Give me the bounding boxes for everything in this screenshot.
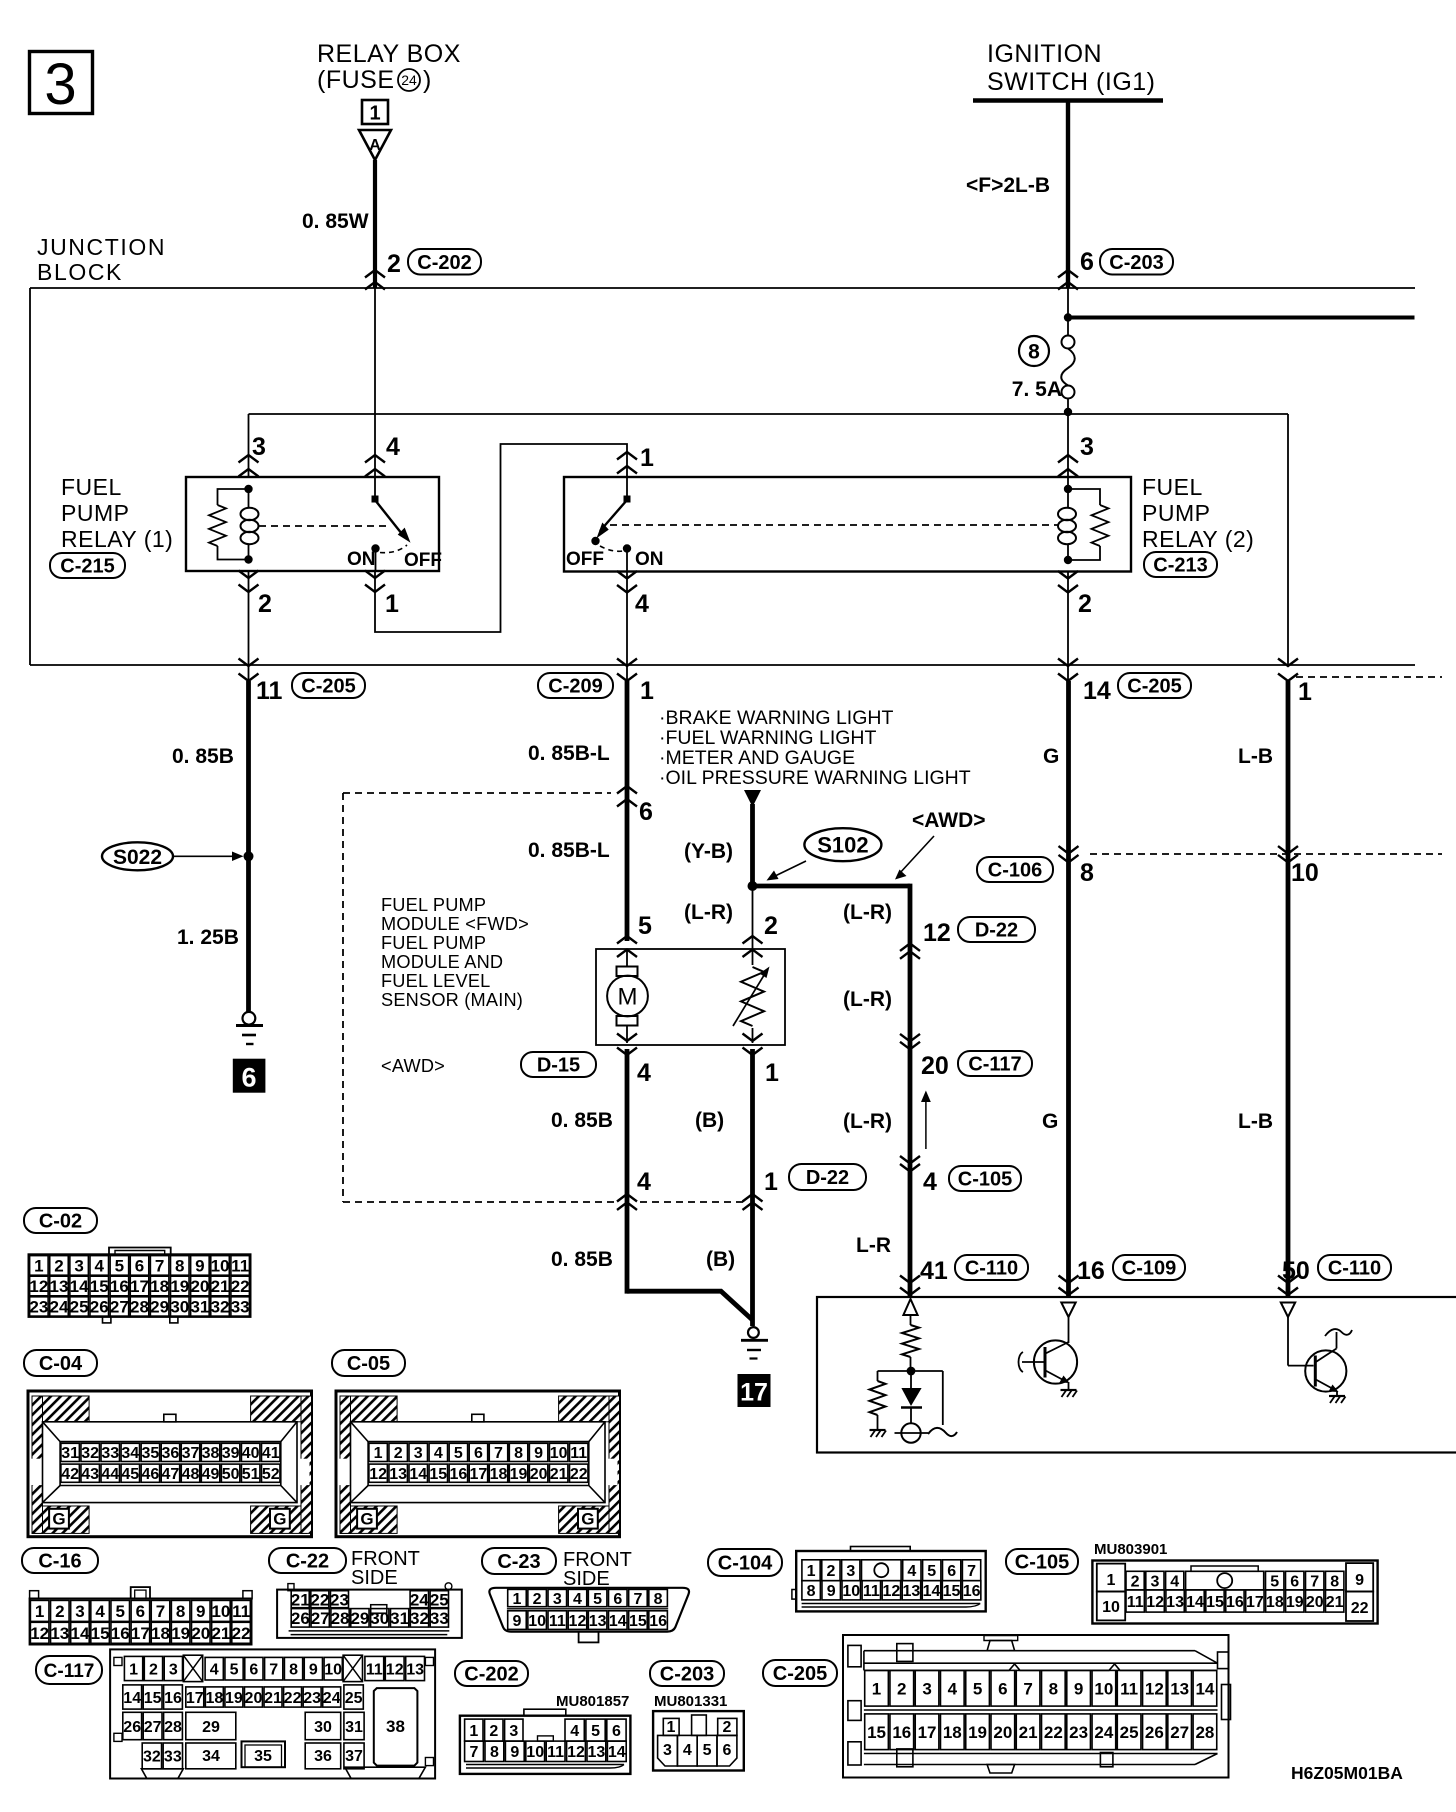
svg-text:13: 13 (1166, 1594, 1184, 1611)
connector C-104 bottom lip (802, 1603, 981, 1605)
svg-text:14: 14 (123, 1690, 141, 1707)
svg-text:13: 13 (903, 1583, 921, 1600)
fuse 8 circle label (1019, 336, 1049, 366)
connector C-16 label (22, 1548, 98, 1573)
svg-text:7: 7 (470, 1744, 479, 1761)
svg-text:17: 17 (131, 1624, 150, 1643)
svg-text:37: 37 (182, 1445, 200, 1462)
svg-text:3: 3 (414, 1445, 423, 1462)
arrows C-106 pin 8 (1059, 846, 1079, 854)
svg-text:9: 9 (195, 1257, 204, 1276)
svg-text:4: 4 (635, 590, 649, 618)
svg-text:26: 26 (1145, 1723, 1164, 1742)
svg-text:C-16: C-16 (38, 1551, 81, 1573)
connector C-04 label (24, 1350, 97, 1376)
connector C-104 pins (802, 1560, 820, 1581)
svg-text:11: 11 (547, 1744, 564, 1761)
svg-text:1: 1 (385, 590, 399, 618)
svg-text:2: 2 (54, 1257, 63, 1276)
svg-text:C-110: C-110 (1328, 1258, 1381, 1280)
svg-text:26: 26 (90, 1298, 109, 1317)
connector C-205 body (843, 1635, 1229, 1778)
svg-text:23: 23 (1069, 1723, 1088, 1742)
svg-text:49: 49 (202, 1466, 220, 1483)
ECM box (817, 1297, 1456, 1453)
svg-text:34: 34 (202, 1748, 220, 1765)
svg-text:7: 7 (155, 1257, 164, 1276)
svg-text:0. 85B: 0. 85B (172, 745, 234, 768)
svg-text:13: 13 (50, 1624, 69, 1643)
svg-text:0. 85B: 0. 85B (551, 1109, 613, 1132)
svg-text:19: 19 (968, 1723, 987, 1742)
svg-text:17: 17 (740, 1379, 768, 1407)
svg-text:22: 22 (1044, 1723, 1063, 1742)
connector C-205 right latch (1218, 1652, 1229, 1669)
svg-text:20: 20 (190, 1277, 209, 1296)
svg-text:15: 15 (629, 1613, 647, 1630)
connector C-104 label (708, 1549, 782, 1576)
svg-text:11: 11 (1127, 1594, 1144, 1611)
svg-text:2: 2 (723, 1719, 732, 1736)
connector C-202 pins (465, 1719, 483, 1741)
svg-text:5: 5 (593, 1591, 602, 1608)
connector C-04 inner face (43, 1422, 298, 1503)
transistor Q1 (1068, 1317, 1070, 1343)
svg-text:20: 20 (191, 1624, 210, 1643)
connector C-04 top tab (164, 1414, 176, 1422)
svg-text:14: 14 (1083, 677, 1111, 705)
svg-text:L-R: L-R (856, 1234, 891, 1257)
svg-text:10: 10 (550, 1445, 568, 1462)
svg-text:39: 39 (222, 1445, 240, 1462)
svg-text:11: 11 (231, 1257, 249, 1276)
svg-text:(L-R): (L-R) (684, 901, 733, 924)
ignition feed bus wire (1068, 316, 1415, 320)
svg-text:5: 5 (454, 1445, 463, 1462)
svg-text:14: 14 (1186, 1594, 1204, 1611)
svg-text:29: 29 (150, 1298, 169, 1317)
svg-text:2: 2 (387, 250, 401, 278)
relay1 ON contact (371, 544, 379, 552)
svg-text:FUEL LEVEL: FUEL LEVEL (381, 971, 491, 991)
splice S022 label (102, 842, 173, 870)
svg-text:8: 8 (175, 1257, 184, 1276)
svg-text:MODULE AND: MODULE AND (381, 952, 503, 972)
arrow from AWD to branch (899, 836, 934, 874)
svg-text:19: 19 (510, 1466, 528, 1483)
svg-text:5: 5 (115, 1602, 124, 1621)
ignition switch bus bar (973, 98, 1163, 103)
connector C-117 pin 38 cavity (374, 1688, 418, 1766)
svg-text:3: 3 (1080, 433, 1094, 461)
svg-text:8: 8 (1080, 859, 1094, 887)
svg-text:24: 24 (50, 1298, 69, 1317)
svg-text:3: 3 (169, 1661, 178, 1678)
svg-text:(B): (B) (706, 1248, 735, 1271)
svg-text:9: 9 (1355, 1572, 1364, 1589)
svg-text:27: 27 (311, 1609, 330, 1628)
svg-text:(L-R): (L-R) (843, 988, 892, 1011)
connector arrows C-203 (1058, 270, 1078, 278)
svg-text:29: 29 (202, 1719, 220, 1736)
transistor Q2 (1287, 1317, 1289, 1366)
svg-text:51: 51 (242, 1466, 260, 1483)
wire C-202 to relay1 pin4 (374, 288, 376, 477)
svg-text:25: 25 (430, 1590, 449, 1609)
thin arrow up along AWD wire (925, 1095, 927, 1149)
ground Q2 (1329, 1395, 1345, 1397)
relay2 coil resistor (1068, 489, 1100, 505)
connector C-22 pins (291, 1591, 309, 1608)
svg-text:M: M (618, 984, 638, 1011)
relay1 coil (244, 485, 252, 493)
svg-text:7: 7 (1310, 1573, 1319, 1590)
connector C-203 body (653, 1711, 744, 1770)
svg-text:47: 47 (162, 1466, 180, 1483)
connector C-202 label (455, 1661, 528, 1686)
svg-text:MU801331: MU801331 (654, 1693, 727, 1710)
svg-text:C-109: C-109 (1122, 1258, 1176, 1280)
svg-text:1: 1 (34, 1257, 43, 1276)
svg-text:20: 20 (921, 1052, 949, 1080)
svg-text:·BRAKE WARNING LIGHT: ·BRAKE WARNING LIGHT (659, 707, 893, 729)
svg-text:15: 15 (429, 1466, 447, 1483)
svg-text:7: 7 (1023, 1679, 1032, 1698)
ground symbol left (243, 1012, 256, 1025)
arrows module pin 4 bottom (617, 1034, 637, 1042)
pump ground wire bend (627, 1291, 753, 1320)
svg-text:MODULE <FWD>: MODULE <FWD> (381, 914, 529, 934)
arrows relay2 pin 3 (1058, 455, 1078, 463)
wire Y-B (750, 804, 755, 886)
svg-text:BLOCK: BLOCK (37, 259, 123, 285)
connector C-02 label (24, 1208, 97, 1233)
svg-text:27: 27 (110, 1298, 129, 1317)
svg-text:12: 12 (569, 1613, 587, 1630)
arrows D-22 bottom pin 4 (617, 1194, 637, 1202)
svg-text:34: 34 (121, 1445, 139, 1462)
relay1 pin2 wire to junction bottom (248, 571, 250, 681)
svg-text:21: 21 (264, 1690, 282, 1707)
svg-text:4: 4 (637, 1059, 651, 1087)
connector C-117 row3 pins (123, 1712, 142, 1739)
svg-text:16: 16 (1226, 1594, 1244, 1611)
wire B sensor ground (750, 1049, 755, 1326)
svg-text:22: 22 (310, 1590, 329, 1609)
svg-text:16: 16 (963, 1583, 981, 1600)
svg-text:6: 6 (135, 1257, 144, 1276)
svg-text:13: 13 (406, 1661, 424, 1678)
svg-text:18: 18 (151, 1624, 170, 1643)
svg-text:28: 28 (164, 1719, 182, 1736)
arrows C-105 pin 4 (900, 1156, 920, 1164)
svg-text:40: 40 (242, 1445, 260, 1462)
svg-text:G: G (52, 1510, 65, 1529)
svg-text:21: 21 (1019, 1723, 1038, 1742)
connector C-117 row2 pins (123, 1685, 142, 1709)
svg-text:2: 2 (149, 1661, 158, 1678)
svg-text:1: 1 (640, 444, 654, 472)
svg-text:4: 4 (95, 1257, 105, 1276)
svg-text:32: 32 (81, 1445, 99, 1462)
svg-text:SENSOR (MAIN): SENSOR (MAIN) (381, 990, 523, 1010)
arrows junction exit L-B (1278, 659, 1298, 667)
svg-text:14: 14 (1195, 1679, 1214, 1698)
svg-text:19: 19 (170, 1277, 189, 1296)
ground reference 6 black box (233, 1059, 266, 1093)
svg-text:21: 21 (211, 1624, 230, 1643)
svg-text:C-213: C-213 (1153, 555, 1207, 577)
svg-text:PUMP: PUMP (1142, 500, 1210, 526)
svg-text:(L-R): (L-R) (843, 901, 892, 924)
connector C-16 pins (30, 1600, 49, 1621)
splice node S022 (244, 851, 254, 861)
svg-text:C-215: C-215 (60, 556, 114, 578)
connector C-105 big pins (1097, 1564, 1125, 1592)
svg-text:15: 15 (1206, 1594, 1224, 1611)
svg-text:L-B: L-B (1238, 1110, 1273, 1133)
svg-text:): ) (423, 66, 431, 94)
gauge right branch (942, 1371, 944, 1425)
svg-text:2: 2 (394, 1445, 403, 1462)
relay2 switch (626, 477, 628, 499)
connector C-203 pins (663, 1718, 679, 1735)
wire rail right leg to L-B output (1287, 414, 1289, 665)
connector C-22 label (269, 1548, 346, 1573)
svg-text:1: 1 (513, 1591, 522, 1608)
svg-text:38: 38 (202, 1445, 220, 1462)
relay2 coil-switch dashed link (610, 524, 1058, 526)
dashed AWD variant line at L-B output (1296, 676, 1442, 678)
svg-text:13: 13 (50, 1277, 69, 1296)
ground Q1 (1061, 1389, 1077, 1391)
svg-text:ON: ON (635, 549, 664, 570)
dashed outline fuel pump module (343, 792, 611, 794)
gauge diode (910, 1371, 912, 1388)
svg-text:C-05: C-05 (347, 1353, 390, 1375)
svg-text:6: 6 (1080, 248, 1094, 276)
svg-text:H6Z05M01BA: H6Z05M01BA (1291, 1763, 1403, 1783)
svg-text:25: 25 (345, 1690, 363, 1707)
svg-text:22: 22 (284, 1690, 302, 1707)
svg-text:11: 11 (863, 1583, 880, 1600)
svg-text:10: 10 (211, 1257, 230, 1276)
connector C-205 side tabs (848, 1645, 861, 1666)
svg-text:22: 22 (1351, 1600, 1369, 1617)
svg-text:0. 85B: 0. 85B (551, 1248, 613, 1271)
splice S102 label (804, 828, 881, 861)
svg-text:45: 45 (121, 1466, 139, 1483)
svg-text:A: A (369, 137, 381, 154)
wire L-B (1286, 681, 1291, 1297)
arrows junction exit 0.85B (239, 659, 259, 667)
rheostat arrow (733, 972, 766, 1026)
gauge circuit collector triangle (903, 1299, 917, 1315)
svg-text:2: 2 (897, 1679, 906, 1698)
svg-text:1: 1 (469, 1723, 478, 1740)
svg-text:11: 11 (570, 1445, 587, 1462)
connector arrows C-202 (365, 270, 385, 278)
svg-text:29: 29 (350, 1609, 369, 1628)
svg-text:13: 13 (589, 1613, 607, 1630)
svg-text:6: 6 (241, 1063, 256, 1093)
svg-text:D-15: D-15 (537, 1055, 580, 1077)
svg-text:52: 52 (262, 1466, 280, 1483)
svg-text:9: 9 (827, 1583, 836, 1600)
connector label C-215 (50, 553, 125, 578)
svg-text:5: 5 (638, 912, 652, 940)
arrows ECM entry 50 (1278, 1276, 1298, 1284)
svg-text:6: 6 (947, 1563, 956, 1580)
svg-text:1: 1 (1298, 678, 1312, 706)
svg-text:7: 7 (269, 1661, 278, 1678)
connector C-117 body (110, 1649, 435, 1778)
relay2 OFF contact (591, 537, 599, 545)
connector C-117 bottom skirts (141, 1769, 183, 1779)
connector C-23 label (482, 1548, 556, 1574)
connector C-203 label (650, 1661, 724, 1686)
svg-text:6: 6 (613, 1591, 622, 1608)
svg-text:23: 23 (303, 1690, 321, 1707)
relay1 box (186, 477, 439, 571)
svg-text:5: 5 (591, 1723, 600, 1740)
svg-text:3: 3 (44, 52, 76, 117)
svg-text:6: 6 (1290, 1573, 1299, 1590)
svg-text:44: 44 (101, 1466, 119, 1483)
svg-text:12: 12 (923, 919, 951, 947)
svg-text:10: 10 (1291, 859, 1319, 887)
connector label C-117 inline (958, 1051, 1032, 1076)
svg-text:31: 31 (390, 1609, 409, 1628)
svg-text:12: 12 (1145, 1679, 1164, 1698)
connector C-205 top bump (987, 1641, 1015, 1651)
connector label C-106 (977, 857, 1053, 882)
connector C-105 label (1006, 1549, 1078, 1574)
power rail wire inside junction block (249, 413, 1289, 415)
svg-text:<F>2L-B: <F>2L-B (966, 174, 1050, 197)
svg-text:33: 33 (164, 1749, 182, 1766)
fuse symbol 7.5A (1067, 322, 1069, 336)
svg-text:17: 17 (186, 1690, 204, 1707)
relay2 pin2 wire to junction bottom (1067, 572, 1069, 682)
svg-text:S102: S102 (817, 833, 868, 858)
wire 0.85B-L from relay2 pin4 (625, 681, 630, 941)
svg-text:22: 22 (231, 1277, 250, 1296)
arrows ECM entry 16 (1059, 1276, 1079, 1284)
svg-text:PUMP: PUMP (61, 500, 129, 526)
svg-text:48: 48 (182, 1466, 200, 1483)
continuation squiggle gauge (928, 1428, 957, 1436)
connector C-23 body (489, 1588, 689, 1632)
svg-text:OFF: OFF (404, 550, 442, 571)
connector C-202 body (460, 1716, 631, 1774)
svg-text:5: 5 (115, 1257, 124, 1276)
svg-text:1: 1 (872, 1679, 881, 1698)
arrows relay2 pin 1 (617, 452, 637, 460)
svg-text:C-205: C-205 (773, 1663, 827, 1685)
arrows module pin 1 bottom (743, 1034, 763, 1042)
svg-text:C-23: C-23 (497, 1551, 540, 1573)
svg-text:2: 2 (55, 1602, 64, 1621)
arrows D-22 pin 12 (900, 943, 920, 951)
svg-text:21: 21 (291, 1590, 310, 1609)
page number box 3 (30, 52, 93, 114)
svg-text:RELAY (2): RELAY (2) (1142, 526, 1254, 552)
svg-text:(B): (B) (695, 1109, 724, 1132)
connector triangle A (359, 130, 391, 160)
svg-text:C-04: C-04 (39, 1353, 83, 1375)
svg-text:32: 32 (143, 1749, 161, 1766)
arrows relay1 pin 3 (239, 455, 259, 463)
svg-text:21: 21 (211, 1277, 230, 1296)
connector C-205 bottom rails (864, 1753, 1218, 1755)
svg-text:11: 11 (549, 1613, 566, 1630)
connector C-02 bottom tabs (103, 1317, 111, 1323)
svg-text:28: 28 (1195, 1723, 1214, 1742)
svg-text:C-202: C-202 (417, 252, 471, 274)
svg-text:7. 5A: 7. 5A (1012, 378, 1062, 401)
svg-text:4: 4 (683, 1742, 692, 1759)
dashed AWD variant line at C-106 (1090, 853, 1442, 855)
svg-text:G: G (273, 1510, 286, 1529)
wire from ignition to fuse node (1067, 288, 1069, 318)
svg-text:5: 5 (927, 1563, 936, 1580)
svg-text:10: 10 (528, 1613, 546, 1630)
svg-text:15: 15 (90, 1277, 109, 1296)
svg-text:4: 4 (1170, 1573, 1179, 1590)
svg-text:ON: ON (347, 549, 376, 570)
svg-text:C-02: C-02 (39, 1211, 82, 1233)
arrows relay1 pin 2 (239, 571, 259, 579)
svg-text:12: 12 (1146, 1594, 1164, 1611)
svg-text:10: 10 (324, 1661, 342, 1678)
node at fuse output (1064, 408, 1072, 416)
svg-text:8: 8 (289, 1661, 298, 1678)
connector C-04 pins (61, 1443, 79, 1461)
wire 0.85W from relay box to junction block (373, 160, 377, 288)
svg-text:13: 13 (588, 1744, 606, 1761)
svg-text:0. 85B-L: 0. 85B-L (528, 742, 610, 765)
connector C-23 bottom tab (579, 1632, 599, 1643)
svg-text:37: 37 (345, 1748, 363, 1765)
svg-text:27: 27 (1170, 1723, 1189, 1742)
relay1 pin1 wire routed to relay2 pin1 (375, 444, 627, 632)
svg-text:30: 30 (170, 1298, 189, 1317)
svg-text:8: 8 (490, 1744, 499, 1761)
svg-text:15: 15 (144, 1690, 162, 1707)
svg-text:33: 33 (430, 1609, 449, 1628)
svg-text:<AWD>: <AWD> (381, 1056, 445, 1076)
svg-text:C-205: C-205 (1127, 676, 1181, 698)
svg-text:8: 8 (654, 1591, 663, 1608)
svg-text:6: 6 (136, 1602, 145, 1621)
svg-text:C-106: C-106 (988, 860, 1042, 882)
svg-text:6: 6 (612, 1723, 621, 1740)
svg-text:15: 15 (867, 1723, 886, 1742)
svg-text:6: 6 (998, 1679, 1007, 1698)
svg-text:16: 16 (449, 1466, 467, 1483)
svg-text:12: 12 (567, 1744, 585, 1761)
svg-text:26: 26 (291, 1609, 310, 1628)
arrows module pin 2 (743, 936, 763, 944)
svg-text:3: 3 (252, 433, 266, 461)
arrows relay1 pin 4 (365, 455, 385, 463)
svg-text:FUEL PUMP: FUEL PUMP (381, 933, 486, 953)
svg-text:14: 14 (70, 1277, 89, 1296)
svg-text:36: 36 (162, 1445, 180, 1462)
arrow from S022 to splice (173, 855, 238, 857)
svg-text:26: 26 (123, 1719, 141, 1736)
